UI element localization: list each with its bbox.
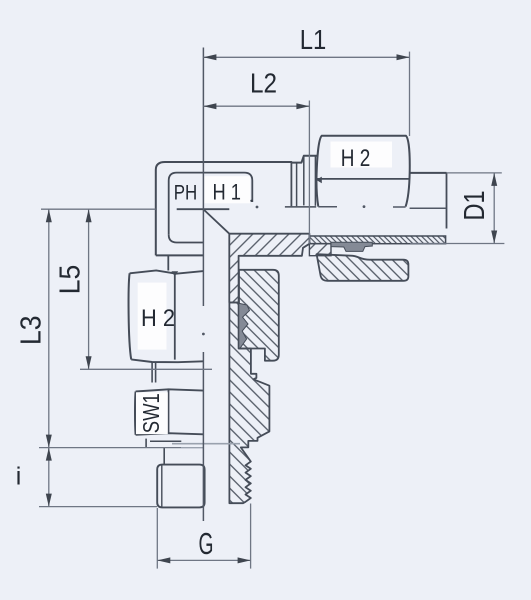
dimension i [48,448,50,507]
facet wedge at vertical nut top [171,271,178,276]
washer lower outer edge [163,448,165,466]
vertical port thread line [167,255,169,270]
body inner relief bottom-left corner [169,235,204,243]
svg-text:PH: PH [174,181,198,204]
nut H2 vertical section [239,270,279,361]
thread relief inner line [161,465,163,507]
stud thread external rect [157,465,204,508]
dimension L3 [48,209,50,447]
svg-text:D1: D1 [459,191,491,221]
cutting ring vertical (gray) [239,303,250,348]
svg-text:H 1: H 1 [212,179,241,204]
body inner relief contour top [169,173,253,235]
nut H2 horizontal facet line [317,178,410,180]
gray ref continuation [181,447,203,449]
body underside edge [156,254,204,256]
collar below vertical nut [151,362,153,383]
extension lines left [39,209,212,506]
centerline horizontal [256,206,259,209]
dimension G [157,504,250,569]
svg-text:H 2: H 2 [341,145,371,172]
stud nipple section with SW1 hex and G thread [229,303,269,504]
body outer contour external [156,156,318,256]
dimension L2 [203,101,309,244]
nut H2 vertical external [130,270,204,273]
centerline vertical [202,48,204,307]
port face vertical lines [290,162,292,206]
seal washer step line below hex [150,440,181,442]
dimension L5 [88,209,90,369]
svg-text:SW1: SW1 [138,393,164,433]
tube external top [410,172,447,174]
svg-text:i: i [16,462,22,490]
nut H2 horizontal external [316,136,409,207]
washer upper outer edge [145,439,147,448]
label H2 horizontal with white box [331,142,393,168]
SW1 hex external [136,389,204,391]
label H1 with white box [205,176,251,203]
tube end face [446,173,448,229]
cutting ring horizontal (gray) [331,242,372,251]
dimension D1 [410,173,504,244]
svg-text:L3: L3 [15,316,47,346]
facet wedge at nut left face [316,177,322,184]
svg-text:G: G [199,526,214,561]
label SW1 with white box [136,392,168,434]
svg-text:L1: L1 [300,24,327,55]
groove line above chamfer [177,208,230,210]
svg-text:H 2: H 2 [141,305,175,332]
body L-section hatched [205,211,310,303]
dimension L1 [203,52,409,136]
small dot after H1 [250,200,252,202]
cone mouth line [285,206,316,208]
label H2 vertical with white box [138,283,167,350]
nut H2 horizontal section [317,254,409,281]
svg-text:L2: L2 [250,68,277,99]
seal gray line [172,443,240,445]
nut H2 vertical facet line [174,274,176,360]
svg-text:L5: L5 [54,265,86,295]
body thread zone under strip [309,244,331,256]
tube bottom wall strip section [309,236,445,244]
